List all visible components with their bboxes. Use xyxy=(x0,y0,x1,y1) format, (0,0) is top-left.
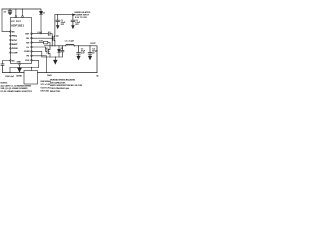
svg-text:TOKO FDA1254 1.0µH: TOKO FDA1254 1.0µH xyxy=(50,87,70,90)
node 5V label xyxy=(4,11,7,13)
junction xyxy=(74,45,75,46)
wire riser to divider box xyxy=(31,68,33,71)
junction xyxy=(49,45,50,46)
op-amp U1 ADP1821 box xyxy=(11,18,32,64)
svg-text:PWGD: PWGD xyxy=(12,48,18,50)
svg-text:L1 = 1.2µH: L1 = 1.2µH xyxy=(65,40,75,42)
capacitor C7 bypass xyxy=(8,9,12,13)
capacitor C8 snubber xyxy=(61,46,64,57)
svg-text:Q1: Q1 xyxy=(56,35,59,37)
wire power input rail xyxy=(55,14,73,16)
transistor Q1 xyxy=(53,15,55,46)
transistor Q2 label xyxy=(45,48,48,50)
wire DL net xyxy=(32,47,47,51)
pin PGND xyxy=(31,51,33,53)
junction xyxy=(31,67,32,68)
junction xyxy=(9,8,10,9)
svg-text:BST: BST xyxy=(25,34,30,36)
wire riser GND bus to rail xyxy=(9,68,11,73)
junction xyxy=(78,45,79,46)
capacitor C1 input xyxy=(56,15,60,26)
diode D2 schottky xyxy=(58,46,61,57)
wire EN tie to 5V rail xyxy=(2,9,10,32)
notes text left xyxy=(1,83,33,93)
junction xyxy=(54,45,55,46)
wire VOUT line xyxy=(74,46,97,73)
junction xyxy=(89,45,90,46)
junction xyxy=(40,33,41,34)
ground power arrow xyxy=(77,56,80,59)
resistor R1 value xyxy=(39,41,43,43)
ground AGND xyxy=(18,68,22,72)
ground power arrow xyxy=(88,56,91,59)
junction xyxy=(58,45,59,46)
junction xyxy=(9,72,10,73)
wire GND pin drop xyxy=(19,64,21,68)
diode D1 label xyxy=(43,13,46,15)
svg-text:5.5V TO 20V: 5.5V TO 20V xyxy=(75,17,88,19)
pin SS xyxy=(10,60,12,62)
transistor Q1 label xyxy=(56,35,59,37)
wire PGOOD net xyxy=(32,60,38,67)
svg-text:UNREGULATED: UNREGULATED xyxy=(74,11,91,14)
diode D1 xyxy=(40,11,43,33)
svg-text:GND: GND xyxy=(17,61,22,63)
wire PGND net xyxy=(32,51,62,57)
pin BST xyxy=(31,33,33,35)
capacitor C3 output xyxy=(77,46,81,56)
pin SW xyxy=(31,42,33,44)
wire DH net xyxy=(32,37,53,39)
svg-text:AGND: AGND xyxy=(16,75,22,78)
junction xyxy=(72,14,73,15)
capacitor C2 input xyxy=(71,15,75,26)
junction xyxy=(52,45,53,46)
capacitor CSS label xyxy=(5,76,15,78)
inductor L1 label xyxy=(65,40,75,42)
svg-text:SYNC: SYNC xyxy=(12,40,18,42)
inductor L1 xyxy=(66,44,74,46)
pin PGOOD xyxy=(31,60,33,62)
ground power arrow PGND xyxy=(54,57,58,64)
wire SW node line xyxy=(45,45,67,47)
pin EN xyxy=(10,31,12,32)
pin COMP xyxy=(10,52,12,54)
svg-text:25V: 25V xyxy=(75,24,79,26)
transistor Q2 xyxy=(47,46,50,57)
svg-text:EN: EN xyxy=(12,31,15,33)
svg-text:CSS 0.1µF: CSS 0.1µF xyxy=(5,76,15,78)
pin GND label xyxy=(17,61,22,63)
svg-text:04: 04 xyxy=(96,74,99,77)
svg-text:MURATA GRM31CR60J476M: MURATA GRM31CR60J476M xyxy=(50,79,75,82)
svg-text:D1: D1 xyxy=(43,13,46,15)
capacitor CSS xyxy=(1,64,4,73)
resistor divider box xyxy=(24,71,38,85)
wire FB net xyxy=(32,56,46,73)
svg-text:6.3V: 6.3V xyxy=(81,53,85,55)
junction xyxy=(62,45,63,46)
node VOUT label xyxy=(90,43,96,45)
svg-text:IOUT 20A: IOUT 20A xyxy=(41,89,50,92)
svg-text:ADP1821: ADP1821 xyxy=(11,24,24,28)
svg-text:RAMP: RAMP xyxy=(12,43,18,46)
pin PVCC xyxy=(22,16,24,18)
capacitor C3 label xyxy=(81,48,86,54)
svg-text:25V: 25V xyxy=(61,24,65,26)
pin VCC xyxy=(15,16,17,18)
capacitor C4 label xyxy=(92,47,98,54)
svg-text:VOUT: VOUT xyxy=(90,43,96,45)
wire BST net xyxy=(32,33,48,35)
svg-text:SS: SS xyxy=(12,60,15,62)
svg-text:FREQ: FREQ xyxy=(12,36,18,38)
capacitor CBST label xyxy=(37,32,43,34)
junction xyxy=(15,8,16,9)
svg-text:VCC: VCC xyxy=(11,21,16,23)
svg-text:SW: SW xyxy=(26,42,29,44)
svg-text:PVCC: PVCC xyxy=(16,21,22,23)
pin FB xyxy=(31,55,33,57)
pin PWGD xyxy=(10,48,12,50)
wire VCC stub xyxy=(15,9,17,16)
capacitor CBST 0.1uF xyxy=(48,32,52,46)
ground power arrow xyxy=(72,26,75,29)
wire SW after resistor xyxy=(48,43,50,46)
svg-text:PGD: PGD xyxy=(25,60,30,62)
wire PVCC stub xyxy=(22,9,24,16)
resistor R1 snubber xyxy=(44,41,48,44)
wire bottom feedback rail xyxy=(3,72,25,74)
pin SYNC xyxy=(10,39,12,41)
wire bottom feedback rail right xyxy=(38,72,98,74)
svg-text:5V: 5V xyxy=(4,11,7,13)
svg-text:FB: FB xyxy=(27,56,30,58)
node input arrow xyxy=(73,14,75,16)
svg-text:Q2: Q2 xyxy=(45,48,48,50)
svg-text:X5R CAPACITOR;: X5R CAPACITOR; xyxy=(50,81,66,84)
svg-text:D1, D2: VISHAY SSA33L SCHOTTKY: D1, D2: VISHAY SSA33L SCHOTTKY. xyxy=(1,90,33,93)
pin DH xyxy=(31,37,33,39)
svg-text:X5R; Q1, Q2: VISHAY Si7868DP;: X5R; Q1, Q2: VISHAY Si7868DP; xyxy=(1,87,29,90)
notes text middle column xyxy=(41,81,52,92)
pin DL xyxy=(31,46,33,48)
ground xyxy=(8,13,11,15)
capacitor C2 label xyxy=(75,20,81,26)
wire GND bus xyxy=(10,67,39,69)
capacitor C1 label xyxy=(61,20,67,26)
svg-text:2.2Ω: 2.2Ω xyxy=(39,41,43,43)
ground power arrow xyxy=(56,26,59,29)
svg-text:ALL CAPS: C1, C2 MURATA GRM31: ALL CAPS: C1, C2 MURATA GRM31 xyxy=(1,84,33,87)
notes text right xyxy=(50,79,83,93)
junction xyxy=(22,8,23,9)
junction xyxy=(55,56,56,57)
svg-text:DH: DH xyxy=(26,38,29,40)
diode D2 label xyxy=(61,48,64,50)
svg-text:COMP: COMP xyxy=(12,52,18,54)
wire SW pin net xyxy=(32,42,43,44)
pin FREQ xyxy=(10,35,12,37)
capacitor C4 output xyxy=(88,46,92,56)
junction xyxy=(57,14,58,15)
svg-text:DL: DL xyxy=(27,47,30,49)
svg-text:10kΩ: 10kΩ xyxy=(47,75,52,77)
pin RAMP xyxy=(10,43,12,45)
node power input label xyxy=(74,11,91,19)
wire SS net xyxy=(3,61,10,64)
svg-text:PGND: PGND xyxy=(24,51,30,53)
svg-text:NOTES:: NOTES: xyxy=(1,83,8,85)
pin GND xyxy=(19,64,21,66)
svg-text:INDUCTOR.: INDUCTOR. xyxy=(50,91,61,93)
junction xyxy=(19,67,20,68)
junction xyxy=(46,72,47,73)
ground AGND label xyxy=(16,75,22,78)
svg-text:SANYO 4SP470M POSCAP; OS-CON: SANYO 4SP470M POSCAP; OS-CON xyxy=(50,84,83,87)
wire 5V rail xyxy=(2,9,41,11)
svg-text:POWER INPUT: POWER INPUT xyxy=(74,15,90,17)
